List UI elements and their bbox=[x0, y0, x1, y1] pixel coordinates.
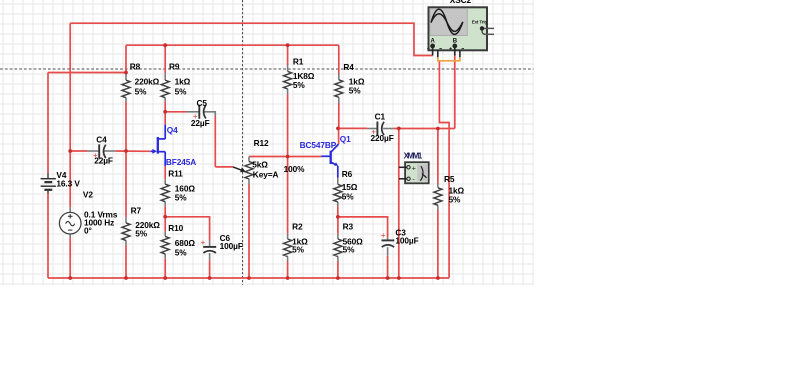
svg-text:Ext Trig: Ext Trig bbox=[472, 19, 488, 24]
svg-text:5%: 5% bbox=[342, 192, 355, 202]
svg-text:R6: R6 bbox=[342, 169, 353, 179]
svg-text:R5: R5 bbox=[444, 174, 455, 184]
svg-text:XMM1: XMM1 bbox=[404, 151, 423, 160]
svg-text:100%: 100% bbox=[284, 164, 306, 174]
svg-text:220kΩ: 220kΩ bbox=[135, 76, 160, 86]
svg-text:5%: 5% bbox=[175, 247, 188, 257]
svg-text:C1: C1 bbox=[375, 111, 386, 121]
svg-text:5%: 5% bbox=[175, 86, 188, 96]
svg-text:Q1: Q1 bbox=[340, 134, 351, 144]
svg-text:100µF: 100µF bbox=[220, 241, 243, 251]
svg-text:5%: 5% bbox=[175, 193, 188, 203]
svg-text:R1: R1 bbox=[293, 56, 304, 66]
svg-text:BC547BP: BC547BP bbox=[300, 140, 337, 150]
svg-text:R4: R4 bbox=[343, 62, 354, 72]
svg-text:5%: 5% bbox=[135, 86, 148, 96]
svg-text:100µF: 100µF bbox=[395, 236, 418, 246]
svg-text:0°: 0° bbox=[84, 226, 92, 236]
svg-text:R9: R9 bbox=[169, 62, 180, 72]
svg-text:C5: C5 bbox=[197, 98, 208, 108]
svg-text:R10: R10 bbox=[168, 223, 183, 233]
svg-text:Q4: Q4 bbox=[167, 125, 178, 135]
svg-text:+: + bbox=[371, 128, 376, 137]
svg-text:16.3 V: 16.3 V bbox=[56, 178, 80, 188]
svg-text:R3: R3 bbox=[343, 222, 354, 232]
svg-text:+: + bbox=[201, 238, 206, 247]
svg-text:C4: C4 bbox=[96, 134, 107, 144]
svg-text:R2: R2 bbox=[292, 222, 303, 232]
svg-text:+: + bbox=[381, 231, 386, 240]
svg-text:Key=A: Key=A bbox=[253, 169, 279, 179]
svg-text:R8: R8 bbox=[130, 62, 141, 72]
svg-text:+: + bbox=[193, 112, 198, 121]
svg-text:B: B bbox=[453, 39, 458, 45]
svg-text:1kΩ: 1kΩ bbox=[175, 76, 191, 86]
svg-text:BF245A: BF245A bbox=[166, 157, 196, 167]
svg-text:+: + bbox=[93, 151, 98, 160]
svg-text:A: A bbox=[431, 39, 436, 45]
svg-text:R11: R11 bbox=[168, 168, 183, 178]
svg-text:5%: 5% bbox=[293, 80, 306, 90]
svg-text:5%: 5% bbox=[449, 194, 462, 204]
svg-text:XSC2: XSC2 bbox=[450, 0, 472, 5]
svg-text:R7: R7 bbox=[131, 206, 142, 216]
svg-text:5%: 5% bbox=[349, 86, 362, 96]
svg-text:5%: 5% bbox=[292, 245, 305, 255]
svg-text:5%: 5% bbox=[343, 245, 356, 255]
svg-text:R12: R12 bbox=[254, 138, 269, 148]
svg-text:5kΩ: 5kΩ bbox=[252, 160, 268, 170]
svg-text:+: + bbox=[412, 165, 416, 172]
svg-text:V2: V2 bbox=[83, 190, 93, 200]
svg-text:5%: 5% bbox=[135, 229, 148, 239]
